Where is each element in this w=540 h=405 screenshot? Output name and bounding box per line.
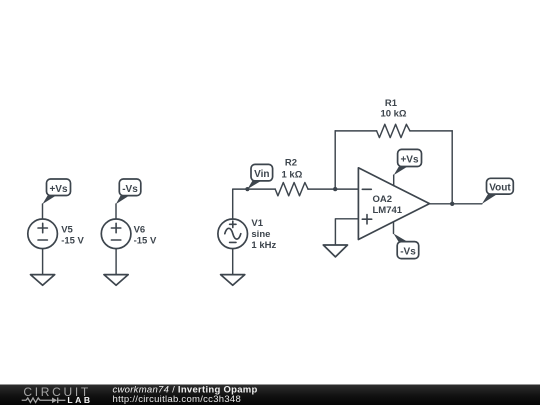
svg-text:V1: V1 [251, 218, 263, 229]
svg-text:1 kΩ: 1 kΩ [281, 169, 302, 180]
CircuitLab logo [22, 385, 93, 405]
wire output [430, 203, 482, 205]
wire [42, 204, 44, 219]
svg-text:+Vs: +Vs [400, 154, 419, 165]
svg-text:V5: V5 [61, 224, 73, 235]
wire [233, 189, 276, 219]
wire +Vs power pin [393, 175, 395, 186]
ground (V6) [104, 275, 128, 286]
wire non-inverting input [335, 219, 358, 245]
wire -Vs power pin [393, 222, 395, 234]
svg-text:10 kΩ: 10 kΩ [380, 109, 406, 120]
ground (V1) [221, 275, 245, 286]
wire [232, 249, 234, 275]
wire [115, 249, 117, 275]
node Vout flag [482, 178, 513, 204]
flag -Vs (node -Vs on V6) [116, 179, 141, 204]
wire [42, 249, 44, 275]
wire [115, 204, 117, 219]
voltage source V5 [28, 219, 85, 249]
svg-text:+Vs: +Vs [49, 184, 68, 195]
flag +Vs (node +Vs on V5) [42, 179, 70, 204]
svg-text:-15 V: -15 V [61, 235, 84, 246]
wire [308, 188, 358, 190]
flag +Vs (op-amp supply) [394, 149, 422, 175]
svg-text:-Vs: -Vs [400, 247, 416, 258]
svg-text:R2: R2 [285, 158, 297, 169]
svg-text:OA2: OA2 [373, 194, 393, 205]
node junction (inverting input / feedback) [333, 187, 337, 191]
resistor R1 [377, 98, 410, 138]
svg-text:1 kHz: 1 kHz [251, 240, 276, 251]
wire feedback right vertical [451, 131, 453, 204]
svg-text:Vout: Vout [489, 183, 511, 194]
svg-text:R1: R1 [385, 98, 398, 109]
node Vin flag [245, 164, 272, 191]
svg-text:-15 V: -15 V [134, 235, 157, 246]
voltage source V6 [101, 219, 157, 249]
op-amp OA2 LM741 [358, 168, 429, 240]
footer bar [0, 385, 540, 405]
svg-text:V6: V6 [134, 224, 146, 235]
svg-text:LAB: LAB [67, 395, 92, 405]
svg-text:Vin: Vin [254, 169, 269, 180]
flag -Vs (op-amp supply) [394, 234, 419, 259]
voltage source V1 (sine) [218, 218, 277, 251]
svg-text:http://circuitlab.com/cc3h348: http://circuitlab.com/cc3h348 [113, 394, 242, 405]
wire [335, 130, 376, 132]
wire feedback left vertical [334, 131, 336, 189]
wire [410, 130, 452, 132]
resistor R2 [275, 158, 308, 196]
footer title text [113, 384, 258, 405]
node junction (output) [450, 202, 454, 206]
svg-text:LM741: LM741 [373, 205, 403, 216]
svg-text:sine: sine [251, 229, 270, 240]
svg-text:-Vs: -Vs [122, 184, 138, 195]
ground (non-inverting input) [323, 245, 347, 257]
ground (V5) [31, 275, 55, 286]
